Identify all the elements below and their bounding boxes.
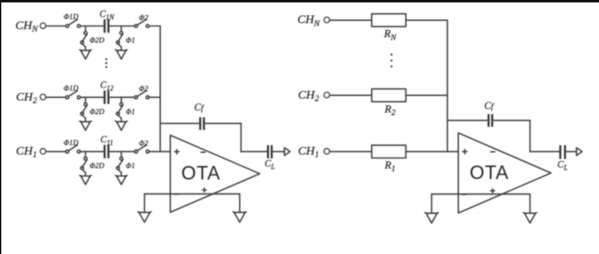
shunt switch phi1 (row CH1) [120, 157, 123, 160]
minus mark at U1 inverting input [175, 151, 179, 153]
switch phi2 (row CHN) [135, 25, 138, 28]
wire feedback tap to Cf (right) [447, 119, 487, 121]
wire CH1 terminal to resistor R1 [330, 151, 372, 153]
node bottom plate (row CH1) [120, 152, 122, 157]
ellipsis between channels (right circuit) [390, 54, 392, 68]
node bottom plate (row CH2) [120, 97, 122, 102]
svg-text:Φ2D: Φ2D [89, 107, 104, 116]
wire resistor R2 to bus [406, 94, 448, 96]
capacitor Cf (right) [488, 114, 490, 127]
ellipsis between channels (left circuit) [105, 58, 107, 68]
capacitor CL (right) [559, 145, 561, 159]
capacitor C1N [104, 19, 106, 32]
plus mark at U1 lower slope [202, 189, 206, 191]
svg-text:OTA: OTA [470, 163, 509, 184]
wire CL to output terminal (right) [566, 151, 576, 153]
svg-text:Φ2: Φ2 [139, 138, 149, 147]
wire U2 lower input rail (right) [432, 193, 530, 195]
resistor RN [372, 14, 406, 27]
wire resistor RN to bus [406, 19, 448, 21]
wire switch phi2 to summing bus (row CH2) [149, 96, 160, 98]
wire CH2 terminal to switch [46, 96, 65, 98]
svg-text:Φ2D: Φ2D [89, 161, 104, 170]
page border top [0, 0, 599, 2]
switch phi1D (row CHN) [66, 25, 69, 28]
wire switch to capacitor C1N [80, 25, 103, 27]
resistor R1 [372, 145, 406, 158]
wire CL to output terminal (left) [273, 151, 284, 153]
switch phi2 (row CH2) [135, 96, 138, 99]
ground of phi1 branch (row CH2) [120, 118, 122, 121]
ground of phi1 branch (row CH1) [120, 173, 122, 176]
plus mark at U2 input [463, 151, 467, 153]
capacitor C11 [104, 145, 106, 158]
wire output node to CL (left) [241, 151, 267, 153]
ground at U1 lower-right rail [239, 194, 241, 213]
output terminal arrow (left) [284, 148, 290, 156]
node top plate (row CH1) [85, 152, 87, 157]
svg-text:Φ1D: Φ1D [64, 84, 79, 93]
wire CHN terminal to resistor RN [330, 19, 372, 21]
wire capacitor to switch phi2 (row CHN) [110, 25, 135, 27]
shunt switch phi2D (row CH2) [84, 103, 87, 106]
node bottom plate (row CHN) [120, 26, 122, 31]
minus mark inside U1 [201, 151, 205, 153]
svg-text:Φ2D: Φ2D [89, 36, 104, 45]
ground at U1 lower-left rail [144, 194, 146, 213]
minus mark inside U2 [491, 151, 495, 153]
node top plate (row CH2) [85, 97, 87, 102]
capacitor Cf (left) [199, 117, 201, 130]
svg-text:Φ1D: Φ1D [64, 12, 79, 21]
wire bus to OTA input (right) [447, 151, 458, 153]
wire capacitor to switch phi2 (row CH1) [110, 151, 135, 153]
svg-text:Φ1: Φ1 [126, 161, 135, 170]
ground of phi2D branch (row CHN) [85, 47, 87, 50]
wire feedback tap up-right to Cf (left) [160, 122, 198, 124]
output terminal arrow (right) [577, 148, 583, 156]
switch phi1D (row CH1) [66, 150, 69, 153]
ground of phi2D branch (row CH2) [85, 118, 87, 121]
capacitor C12 [104, 91, 106, 104]
ground of phi1 branch (row CHN) [120, 47, 122, 50]
resistor R2 [372, 89, 406, 102]
page border left [0, 0, 1, 254]
wire resistor R1 to bus [406, 151, 448, 153]
shunt switch phi2D (row CHN) [84, 32, 87, 35]
wire capacitor to switch phi2 (row CH2) [110, 96, 135, 98]
summing bus wire (right circuit) [446, 20, 448, 151]
wire switch phi2 to summing bus (row CH1) [149, 151, 160, 153]
wire CHN terminal to switch [46, 25, 65, 27]
svg-text:Φ1: Φ1 [126, 107, 135, 116]
plus mark at U2 lower slope [491, 190, 495, 192]
shunt switch phi1 (row CHN) [120, 32, 123, 35]
wire CH1 terminal to switch [46, 151, 65, 153]
wire switch phi2 to summing bus (row CHN) [149, 25, 160, 27]
ground at U2 lower-left rail [431, 194, 433, 213]
node top plate (row CHN) [85, 26, 87, 31]
capacitor CL (left) [267, 145, 269, 158]
svg-text:OTA: OTA [181, 164, 220, 185]
wire U1 lower input rail (left) [145, 193, 240, 195]
shunt switch phi2D (row CH1) [84, 157, 87, 160]
wire output node to CL (right) [530, 151, 559, 153]
ground at U2 lower-right rail [529, 194, 531, 213]
svg-text:Φ1: Φ1 [126, 36, 135, 45]
op-amp OTA U2 (right) [458, 133, 551, 213]
minus mark at U2 lower left [462, 194, 466, 196]
wire Cf to output node (right) [529, 120, 531, 151]
wire bus to OTA inverting input (left) [160, 151, 170, 153]
wire switch to capacitor C11 [80, 151, 103, 153]
shunt switch phi1 (row CH2) [120, 103, 123, 106]
summing bus wire (left circuit) [159, 26, 161, 152]
minus mark at U1 lower left [175, 193, 179, 195]
svg-text:Φ2: Φ2 [139, 84, 149, 93]
op-amp OTA U1 (left) [170, 135, 259, 212]
wire switch to capacitor C12 [80, 96, 103, 98]
wire Cf to output node (left) [240, 123, 242, 151]
ground of phi2D branch (row CH1) [85, 173, 87, 176]
wire CH2 terminal to resistor R2 [330, 94, 372, 96]
switch phi1D (row CH2) [66, 96, 69, 99]
svg-text:Φ2: Φ2 [139, 13, 149, 22]
svg-text:Φ1D: Φ1D [64, 138, 79, 147]
switch phi2 (row CH1) [135, 150, 138, 153]
